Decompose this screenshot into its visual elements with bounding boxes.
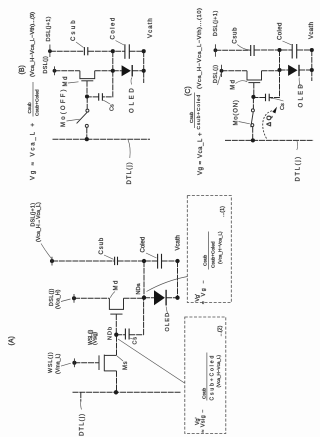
svg-text:Cs: Cs <box>110 104 116 111</box>
svg-text:DTL(j): DTL(j) <box>80 413 86 436</box>
svg-text:Csub+Coled: Csub+Coled <box>210 354 216 401</box>
svg-text:Cs: Cs <box>280 103 286 110</box>
svg-text:...(1): ...(1) <box>220 206 226 217</box>
svg-text:OLED: OLED <box>130 85 136 113</box>
svg-text:DSL(j+1): DSL(j+1) <box>46 16 52 41</box>
svg-text:WSL(j): WSL(j) <box>48 351 54 373</box>
svg-text:Ms: Ms <box>123 361 129 370</box>
svg-text:Md: Md <box>63 75 69 87</box>
svg-text:Md: Md <box>114 279 120 290</box>
svg-text:...(2): ...(2) <box>218 325 224 336</box>
svg-text:DSL(j): DSL(j) <box>43 56 49 74</box>
svg-text:DSL(j+1): DSL(j+1) <box>213 10 219 36</box>
svg-text:Csub: Csub <box>27 102 33 114</box>
svg-text:Coled: Coled <box>111 16 117 39</box>
svg-text:(Vca_H−Vca_L): (Vca_H−Vca_L) <box>216 354 221 387</box>
svg-text:DTL(j): DTL(j) <box>127 161 133 184</box>
svg-text:Coled: Coled <box>278 22 284 40</box>
svg-text:Csub: Csub <box>99 237 105 255</box>
svg-text:(Vca_H−Vca_L−Vth)...(9): (Vca_H−Vca_L−Vth)...(9) <box>30 12 36 77</box>
svg-text:OLED: OLED <box>165 312 171 332</box>
svg-text:Csub: Csub <box>203 254 209 266</box>
svg-text:(Vca_H→Vca_L): (Vca_H→Vca_L) <box>36 202 42 242</box>
svg-text:(B): (B) <box>19 65 26 74</box>
svg-text:ΔQ: ΔQ <box>266 114 273 127</box>
svg-text:Cs: Cs <box>133 336 139 344</box>
svg-text:NDb: NDb <box>108 326 114 340</box>
svg-text:Csub: Csub <box>233 27 239 44</box>
svg-text:Csub+Coled: Csub+Coled <box>196 94 202 130</box>
svg-text:(Vca_H−Vca_L): (Vca_H−Vca_L) <box>218 231 223 264</box>
svg-text:OLED: OLED <box>299 82 305 108</box>
svg-text:(C): (C) <box>185 86 192 96</box>
svg-text:DSL(j): DSL(j) <box>49 288 55 306</box>
svg-text:≈ Vg −: ≈ Vg − <box>201 279 207 304</box>
svg-text:Csub+Coled: Csub+Coled <box>211 241 217 268</box>
svg-text:(Vsig): (Vsig) <box>93 332 99 345</box>
svg-text:Mo(ON): Mo(ON) <box>234 99 240 125</box>
svg-text:Csub: Csub <box>71 18 77 41</box>
svg-text:Vg ≈ Vca_L +: Vg ≈ Vca_L + <box>198 132 204 175</box>
svg-text:Coled: Coled <box>141 237 147 253</box>
svg-text:(Vma_L): (Vma_L) <box>55 353 61 374</box>
svg-text:Vcath: Vcath <box>176 235 182 250</box>
svg-text:Vcath: Vcath <box>148 17 154 38</box>
svg-text:(Vca_H): (Vca_H) <box>55 289 61 309</box>
svg-text:(A): (A) <box>9 336 16 345</box>
svg-text:Md: Md <box>230 79 236 90</box>
svg-text:NDa: NDa <box>136 283 142 295</box>
svg-text:DTL(j): DTL(j) <box>296 155 302 181</box>
svg-text:≈ Vsig −: ≈ Vsig − <box>201 409 207 432</box>
svg-text:Vg ≈ Vca_L +: Vg ≈ Vca_L + <box>31 121 37 180</box>
svg-text:Mo(OFF): Mo(OFF) <box>61 87 67 127</box>
svg-text:Csub+Coled: Csub+Coled <box>35 89 41 116</box>
svg-text:Vcath: Vcath <box>309 22 315 39</box>
svg-text:(Vca_H−Vca_L−Vth)...(10): (Vca_H−Vca_L−Vth)...(10) <box>197 7 203 89</box>
svg-text:DSL(j): DSL(j) <box>213 64 219 83</box>
